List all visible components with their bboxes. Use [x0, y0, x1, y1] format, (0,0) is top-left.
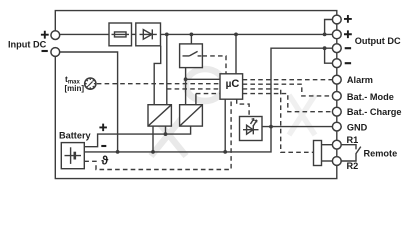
wire: uC top stub to + rail: [235, 34, 237, 73]
svg-text:µC: µC: [226, 78, 240, 90]
converter 2 diagonal: [180, 105, 203, 126]
converter 1 diagonal: [148, 105, 171, 126]
wire: uC dashed to Alarm terminal: [243, 79, 333, 81]
wire: uC bottom stub to minus rail: [224, 99, 226, 152]
wire: fuse to diode: [132, 33, 136, 35]
relay contact box: [180, 44, 203, 68]
node: battery + / converter1 junction: [164, 132, 168, 136]
terminal: Input DC -: [51, 48, 60, 57]
wire: top rail from Input+ up and across to Output+ terminal 1: [55, 11, 337, 31]
wire: Input+ to fuse: [60, 33, 109, 35]
node: GND / minus vertical junction: [269, 125, 273, 129]
wire: battery minus rail right then up to Output-: [84, 48, 332, 152]
wire: converter 2 sense stub: [195, 94, 197, 105]
svg-text:R1: R1: [347, 135, 359, 145]
svg-text:ϑ: ϑ: [101, 154, 108, 168]
node: relay tap on + rail: [190, 33, 194, 37]
wire: relay node to uC left pin 1: [186, 78, 220, 80]
wire: R2 to remote switch blade: [341, 147, 361, 161]
terminal: Output + 2: [332, 30, 341, 39]
terminal: Output - 2: [332, 59, 341, 68]
fuse F1 box: [109, 23, 132, 46]
relay contact symbol: [183, 51, 202, 56]
node: relay/uC junction: [184, 77, 188, 81]
label output - 1: [345, 47, 351, 49]
wire: left rail below Input- down to bottom rail and across to R2 drop: [55, 56, 337, 178]
node: - bracket junction: [323, 46, 327, 50]
wire: bracket joining the two + output terminals: [325, 20, 333, 35]
wire: converter1 sense dashed to uC pin 3: [167, 88, 220, 90]
terminal: Bat.-Charge: [332, 107, 341, 116]
wire: uC dashed to Bat.-Mode terminal: [243, 84, 333, 96]
node: converter1 output on + rail: [165, 33, 169, 37]
wire: bracket joining the two - output terminals: [325, 48, 333, 63]
battery cell symbol: [65, 155, 82, 157]
wire: relay control dashed to uC top: [202, 56, 226, 74]
wire: jumper to R1 terminal: [322, 144, 333, 146]
terminal: Output - 1: [332, 44, 341, 53]
wire: LED output to GND terminal: [262, 126, 333, 128]
remote jumper block: [314, 141, 322, 166]
microcontroller U1 box: [220, 74, 243, 99]
wire: + rail diode output to Output DC +: [161, 33, 333, 35]
svg-text:Output DC: Output DC: [355, 36, 401, 46]
label input +: [41, 31, 49, 39]
svg-text:GND: GND: [347, 123, 368, 133]
wire: converter 1 bottom left stub to minus rail: [152, 126, 154, 152]
wire: relay top stub to + rail: [190, 34, 192, 44]
label output - 2: [345, 62, 351, 64]
svg-text:Input DC: Input DC: [8, 39, 47, 49]
wire: tmax timer dashed line to uC pin 2: [97, 83, 220, 85]
wire: battery temperature sensor dashed to uC bottom: [84, 99, 231, 169]
terminal: R2: [332, 157, 341, 166]
battery box: [61, 143, 84, 169]
terminal: Input DC +: [51, 31, 60, 40]
label output + 1: [344, 15, 352, 23]
terminal: GND: [332, 122, 341, 131]
svg-text:R2: R2: [347, 161, 359, 171]
tmax timer clock icon: [85, 78, 96, 89]
LED symbol: [243, 125, 259, 134]
wire: Input- across and down to battery minus rail: [60, 52, 118, 152]
svg-text:[min]: [min]: [65, 84, 85, 93]
wire: uC dashed to LED box: [237, 99, 249, 116]
svg-text:Bat.- Charge: Bat.- Charge: [347, 107, 402, 117]
watermark: [151, 69, 315, 156]
wire: converter 1 bottom right stub to battery + line: [165, 126, 167, 134]
wire: battery plus step up to + bus feeding converter 2: [84, 126, 190, 147]
label battery +: [99, 124, 107, 131]
terminal: R1: [332, 140, 341, 149]
converter 1 box: [148, 105, 171, 126]
diode V1 symbol: [140, 29, 157, 39]
node: + bracket junction: [323, 33, 327, 37]
converter 2 box: [180, 105, 203, 126]
label input -: [42, 50, 48, 52]
svg-text:Alarm: Alarm: [347, 75, 373, 85]
node: converter1 / battery- junction: [151, 150, 155, 154]
wire: R1 to remote switch contact: [341, 145, 356, 150]
node: input- / battery- junction: [116, 150, 120, 154]
LED indicator box: [240, 117, 263, 141]
svg-text:Remote: Remote: [364, 149, 398, 159]
wire: jumper to R2 terminal: [322, 160, 333, 162]
svg-text:Battery: Battery: [59, 131, 92, 141]
wire: diode bottom jog down to converter 1 input: [154, 46, 161, 105]
wire: uC dashed to Bat.-Charge terminal: [243, 94, 333, 112]
node: uC supply tap on + rail: [234, 33, 238, 37]
terminal: Output + 1: [332, 15, 341, 24]
wire: converter 1 output stub to + rail: [166, 34, 168, 104]
node: uC ground junction: [223, 150, 227, 154]
terminal: Bat.-Mode: [332, 92, 341, 101]
wire: right terminal chain vertical: [336, 15, 338, 165]
svg-text:Bat.- Mode: Bat.- Mode: [347, 92, 394, 102]
wire: converter2 sense dashed to uC pin 4: [196, 93, 220, 95]
fuse F1 symbol: [112, 32, 130, 37]
label output + 2: [344, 30, 352, 38]
terminal: Alarm: [332, 75, 341, 84]
label battery -: [101, 145, 106, 147]
wire: uC dashed to remote jumper: [243, 89, 314, 152]
terminal circles: [51, 15, 341, 165]
diode V1 box: [136, 23, 161, 46]
wire: relay bottom stub down to converter 2: [185, 68, 187, 105]
